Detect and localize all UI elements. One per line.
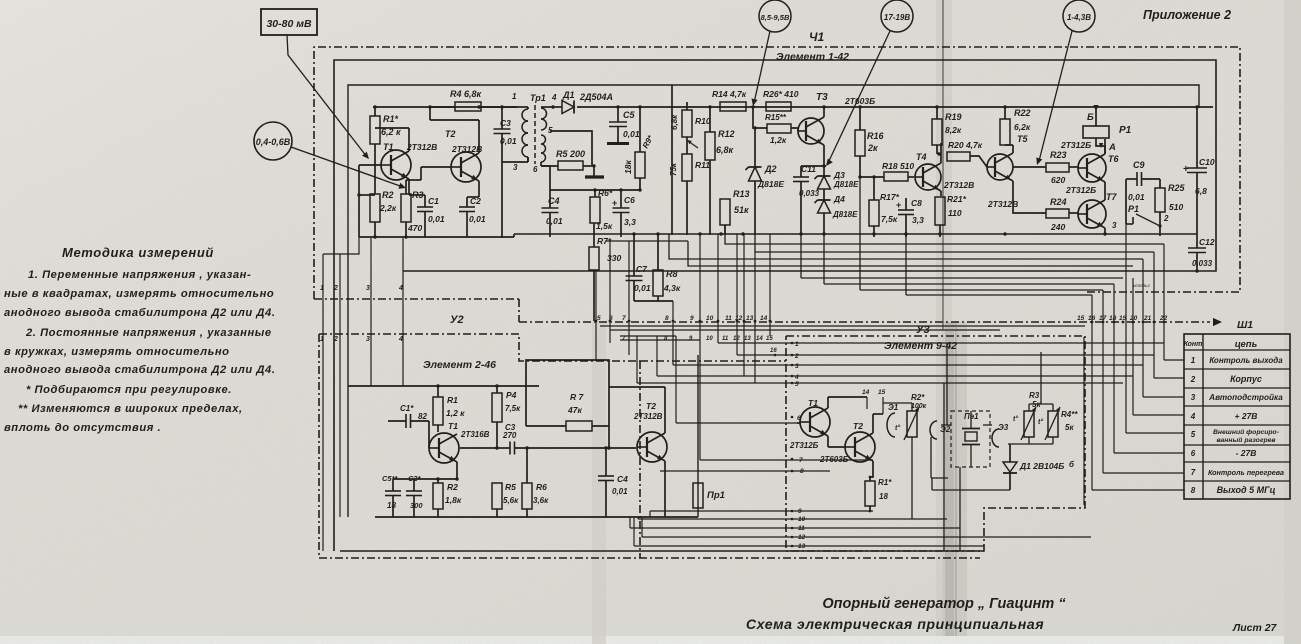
svg-text:2Т312В: 2Т312В: [451, 144, 482, 154]
svg-text:Т2: Т2: [445, 129, 456, 139]
svg-text:использ: использ: [1133, 283, 1150, 288]
У2 top rail: [348, 385, 539, 387]
transistor T1 У3: [789, 397, 830, 450]
svg-text:С12: С12: [1199, 237, 1215, 247]
svg-text:3,3: 3,3: [624, 217, 636, 227]
resistor R2 У2: [433, 479, 462, 517]
capacitor C7: [626, 234, 651, 301]
table rows text: [1190, 356, 1284, 495]
pin wire 4: [402, 238, 404, 386]
capacitor C1 У2: [388, 404, 429, 428]
resistor R1: [370, 105, 401, 152]
svg-text:14: 14: [760, 315, 768, 322]
bus y241 short: [606, 240, 688, 242]
resistor R16: [855, 105, 885, 177]
transistor T1: [375, 128, 437, 195]
wire pin6 down: [541, 166, 550, 208]
resistor R20: [947, 140, 987, 167]
callout circle 8,5-9,5В: [759, 0, 791, 32]
svg-text:300: 300: [410, 501, 423, 510]
svg-text:0,01: 0,01: [634, 283, 651, 293]
svg-text:Т6: Т6: [1108, 154, 1119, 164]
У3 pin 6-8 nets: [660, 422, 873, 471]
svg-text:R10: R10: [695, 116, 711, 126]
svg-text:Б: Б: [1087, 112, 1094, 123]
pin 8: [665, 301, 674, 365]
wire T1 out: [460, 447, 497, 449]
У3 pins 1-5: [770, 341, 799, 388]
label Ш1: [1237, 319, 1253, 331]
svg-text:0,4-0,6В: 0,4-0,6В: [256, 137, 291, 147]
wire У2 T2 base: [607, 426, 610, 450]
svg-text:9: 9: [690, 315, 694, 322]
thermistor R4 У3: [1038, 407, 1078, 440]
svg-text:R3: R3: [1029, 391, 1040, 400]
У2 bottom rail: [375, 516, 698, 518]
connector table Ш1 grid: [1184, 334, 1290, 499]
transformer Тр1: [512, 92, 557, 174]
callout leader to T1 emitter: [291, 147, 406, 189]
У3 internal wires: [931, 343, 948, 551]
svg-text:15: 15: [878, 389, 886, 396]
svg-text:Ч1: Ч1: [809, 30, 824, 44]
svg-text:Д818Е: Д818Е: [833, 180, 859, 189]
wire bottom rail y237: [359, 234, 514, 237]
capacitor C4: [542, 196, 563, 237]
svg-text:С1: С1: [428, 196, 439, 206]
svg-text:Э1: Э1: [888, 403, 899, 412]
svg-text:1,2к: 1,2к: [770, 135, 787, 145]
svg-text:1-4,3В: 1-4,3В: [1067, 13, 1091, 22]
У3 pins 9-13: [791, 508, 806, 550]
svg-text:0,01: 0,01: [428, 214, 445, 224]
svg-text:2Т312Б: 2Т312Б: [1065, 185, 1096, 195]
svg-text:5,6к: 5,6к: [503, 496, 519, 505]
svg-text:Т5: Т5: [1017, 134, 1028, 144]
resistor R6 У2: [522, 446, 549, 517]
resistor R5 У2: [492, 482, 519, 517]
svg-text:Контроль перегрева: Контроль перегрева: [1208, 468, 1284, 477]
resistor R1 У3: [865, 478, 892, 512]
svg-text:* Подбираются при регулиров: * Подбираются при регулировке.: [26, 384, 232, 396]
label А test point: [1099, 142, 1116, 153]
svg-text:2Т316В: 2Т316В: [460, 430, 490, 439]
svg-text:R2: R2: [447, 482, 458, 492]
resistor R4 У2: [492, 384, 521, 449]
svg-text:2,2к: 2,2к: [379, 203, 397, 213]
label Элемент 2-46: [423, 359, 496, 371]
wire Д2 top: [0, 0, 1, 1]
callout leader to R14/R26 node: [752, 31, 771, 106]
svg-text:2. Постоянные напряжения , ук: 2. Постоянные напряжения , указанные: [25, 327, 272, 339]
svg-text:7: 7: [622, 315, 626, 322]
svg-text:2Т312В: 2Т312В: [406, 142, 437, 152]
pin wire 2: [339, 254, 341, 517]
frame У1 outer dash-dot: [314, 47, 1240, 299]
svg-text:Т3: Т3: [816, 92, 828, 103]
svg-text:4: 4: [551, 93, 557, 102]
svg-text:100к: 100к: [911, 403, 927, 410]
svg-text:330: 330: [607, 253, 621, 263]
svg-text:2Т312Б: 2Т312Б: [789, 441, 819, 450]
svg-text:2: 2: [794, 353, 799, 360]
pin 11: [725, 234, 738, 355]
svg-text:С1*: С1*: [400, 404, 414, 413]
svg-text:4: 4: [398, 336, 403, 343]
svg-text:R24: R24: [1050, 197, 1067, 207]
svg-text:R2*: R2*: [911, 393, 925, 402]
svg-text:Д3: Д3: [833, 170, 845, 180]
resistor R23: [1013, 150, 1078, 185]
callout circle 0,4-0,6В: [254, 122, 292, 160]
wire C10 column: [1195, 105, 1198, 248]
table header: [1184, 339, 1258, 350]
svg-text:С6: С6: [624, 195, 635, 205]
wire T1 collector У2: [0, 0, 1, 1]
wire R20 left: [0, 0, 1, 1]
svg-text:R4**: R4**: [1061, 410, 1078, 419]
capacitor C5: [607, 105, 640, 143]
zener Д2: [746, 126, 785, 235]
wire mid column x672: [671, 85, 673, 235]
svg-text:R 7: R 7: [570, 392, 585, 402]
fuse Пр1: [693, 355, 725, 517]
bus y295: [906, 234, 1092, 295]
svg-text:2Т603Б: 2Т603Б: [844, 96, 875, 106]
bus y244: [725, 225, 1164, 244]
svg-text:13: 13: [746, 315, 754, 322]
svg-text:Элемент 9-42: Элемент 9-42: [884, 340, 957, 352]
svg-text:10: 10: [706, 336, 713, 342]
svg-text:R6: R6: [536, 482, 547, 492]
svg-text:+ 27В: + 27В: [1235, 411, 1258, 421]
resistor R4: [428, 89, 514, 120]
svg-text:15: 15: [766, 336, 773, 342]
note line 4: [25, 327, 272, 339]
svg-text:R22: R22: [1014, 108, 1031, 118]
bus y284: [824, 234, 1114, 284]
heater Э2: [930, 421, 937, 439]
У3 pins 6-8: [791, 415, 804, 475]
svg-text:Т4: Т4: [916, 152, 927, 162]
svg-text:С7: С7: [636, 264, 648, 274]
svg-text:R6*: R6*: [598, 188, 613, 198]
svg-text:Т7: Т7: [1106, 192, 1117, 202]
svg-text:Д2: Д2: [764, 164, 777, 174]
svg-text:7,5к: 7,5к: [505, 404, 521, 413]
svg-text:R20 4,7к: R20 4,7к: [948, 140, 983, 150]
svg-text:4,3к: 4,3к: [663, 283, 681, 293]
resistor R10: [670, 102, 711, 137]
svg-text:Т1: Т1: [448, 421, 458, 431]
svg-text:Конт: Конт: [1184, 341, 1203, 348]
svg-text:30-80 мВ: 30-80 мВ: [266, 18, 312, 30]
resistor R7: [589, 223, 621, 321]
capacitor C8: [896, 198, 924, 237]
capacitor C1: [409, 195, 445, 237]
transistor T2 У3: [819, 414, 875, 481]
svg-text:1,2 к: 1,2 к: [446, 408, 465, 418]
svg-text:Д1: Д1: [562, 90, 575, 100]
wire T4 emitter: [0, 0, 1, 1]
resistor R12: [705, 105, 735, 235]
pin 6: [609, 241, 613, 343]
pins 7-15 row2 labels: [622, 336, 773, 342]
zener Д3: [815, 166, 860, 200]
svg-text:Ш1: Ш1: [1237, 319, 1253, 331]
capacitor C2 У2: [406, 474, 423, 517]
transistor T3: [791, 92, 875, 166]
crystal Пэ1 element: [962, 411, 980, 467]
harness wires to connector Ш1: [1092, 224, 1184, 490]
wire R6C6 rail: [550, 189, 640, 191]
svg-text:2: 2: [1163, 214, 1169, 223]
svg-text:620: 620: [1051, 175, 1065, 185]
svg-text:0,01: 0,01: [546, 216, 563, 226]
wire У2 verticals: [0, 0, 1, 1]
wire T4 collector node: [937, 152, 940, 155]
svg-text:** Изменяются в широких пре: ** Изменяются в широких пределах,: [18, 403, 243, 415]
resistor R17: [869, 175, 900, 237]
caption Приложение 2: [1143, 8, 1231, 22]
wire T5 base: [0, 0, 1, 1]
wire 15 rail: [873, 413, 883, 415]
svg-text:8,5-9,5В: 8,5-9,5В: [761, 13, 790, 22]
resistor R2: [370, 152, 397, 239]
resistor R3: [401, 180, 424, 239]
svg-text:2Т312Б: 2Т312Б: [1060, 140, 1091, 150]
svg-text:3: 3: [1112, 221, 1117, 230]
wire top rail y107: [373, 106, 1213, 108]
svg-text:240: 240: [1050, 222, 1065, 232]
svg-text:Э3: Э3: [998, 423, 1009, 432]
diode Д1: [551, 90, 613, 114]
wire T3 base loop: [0, 0, 1, 1]
svg-text:R15**: R15**: [765, 113, 787, 122]
svg-text:С9: С9: [1133, 160, 1145, 170]
svg-text:2к: 2к: [867, 143, 878, 153]
svg-text:82: 82: [418, 412, 427, 421]
transistor T5: [987, 134, 1028, 212]
svg-text:+: +: [1183, 164, 1189, 175]
wire T1-T2 У3: [828, 446, 845, 448]
capacitor C10: [1183, 157, 1215, 196]
svg-text:18: 18: [387, 501, 396, 510]
callout circle 17-19В: [881, 0, 913, 32]
capacitor C4 У2: [598, 446, 628, 517]
svg-text:Э2: Э2: [940, 425, 951, 434]
svg-text:Д1 2В104Б: Д1 2В104Б: [1019, 461, 1064, 471]
svg-text:11: 11: [725, 315, 732, 322]
svg-text:2: 2: [333, 285, 338, 292]
svg-text:4: 4: [1190, 412, 1196, 421]
svg-text:8: 8: [665, 315, 669, 322]
svg-text:6: 6: [533, 165, 538, 174]
svg-text:+: +: [896, 200, 901, 210]
resistor R15: [753, 107, 791, 145]
svg-text:R13: R13: [733, 189, 750, 199]
svg-text:18: 18: [879, 492, 888, 501]
svg-text:Д818Е: Д818Е: [832, 210, 858, 219]
svg-text:5: 5: [597, 315, 601, 322]
svg-text:R4 6,8к: R4 6,8к: [450, 89, 482, 99]
svg-text:Т2: Т2: [853, 421, 863, 431]
note line 7: [26, 384, 232, 396]
label Б test point: [1087, 105, 1099, 123]
svg-text:Тр1: Тр1: [530, 93, 546, 103]
resistor R8: [634, 232, 681, 301]
svg-text:0,01: 0,01: [612, 487, 628, 496]
svg-text:510: 510: [1169, 202, 1183, 212]
svg-text:8: 8: [1191, 486, 1196, 495]
bus y290: [860, 177, 1103, 290]
У3 pin9-13 nets: [630, 511, 1091, 546]
svg-text:51к: 51к: [734, 205, 749, 215]
note line 9: [4, 422, 161, 434]
label Элемент 9-42: [884, 340, 957, 352]
transistor T2 У2: [633, 401, 667, 517]
wire R10 top: [0, 0, 1, 1]
wire R10-R11 junction: [686, 137, 688, 154]
svg-text:Приложение 2: Приложение 2: [1143, 8, 1231, 22]
svg-text:18к: 18к: [623, 160, 633, 174]
svg-text:2: 2: [333, 336, 338, 343]
svg-text:R21*: R21*: [947, 194, 967, 204]
capacitor C11: [793, 164, 820, 235]
svg-text:0,01: 0,01: [623, 129, 640, 139]
svg-text:У3: У3: [916, 324, 930, 336]
svg-text:R5: R5: [505, 482, 516, 492]
svg-text:Р1: Р1: [1119, 125, 1132, 136]
capacitor C6: [612, 188, 636, 237]
svg-text:R23: R23: [1050, 150, 1067, 160]
pin 13: [746, 252, 756, 383]
bus y266: [688, 241, 1133, 266]
svg-text:анодного вывода стабилитрона: анодного вывода стабилитрона Д2 или Д4.: [4, 364, 275, 376]
svg-text:Схема электрическая принц: Схема электрическая принципиальная: [746, 617, 1044, 633]
transistor T1 У2: [429, 421, 490, 479]
resistor R14: [712, 89, 755, 111]
svg-text:18: 18: [1109, 315, 1117, 322]
svg-text:Т2: Т2: [646, 401, 656, 411]
wire R13 top: [0, 0, 1, 1]
title line 1: [822, 596, 1066, 612]
svg-text:ванный разогрев: ванный разогрев: [1217, 436, 1276, 444]
svg-text:t°: t°: [895, 424, 900, 432]
wire T1 emitter rail: [393, 477, 459, 480]
svg-text:R26* 410: R26* 410: [763, 89, 799, 99]
pin wire 3: [370, 238, 372, 386]
bus y278: [801, 234, 1123, 278]
crystal Пэ1 dashed box: [951, 411, 990, 467]
svg-text:2: 2: [1190, 375, 1196, 384]
wire C8 top: [0, 0, 1, 1]
callout leader to T1 base: [287, 35, 369, 159]
wire osc bottom to frame: [0, 0, 1, 1]
svg-text:Выход 5 МГц: Выход 5 МГц: [1217, 485, 1276, 495]
svg-text:С4: С4: [548, 196, 560, 206]
svg-text:С4: С4: [617, 474, 628, 484]
thermistor R3 У3: [1013, 391, 1041, 440]
pin wire 1: [323, 237, 359, 551]
svg-text:Опорный генератор „ Гиацин: Опорный генератор „ Гиацинт “: [822, 596, 1066, 612]
frame У2 right edge: [639, 361, 641, 558]
svg-text:4: 4: [398, 285, 403, 292]
svg-text:Контроль выхода: Контроль выхода: [1209, 356, 1283, 365]
svg-text:1,8к: 1,8к: [445, 495, 462, 505]
pin 5: [595, 270, 601, 361]
capacitor C5 У2: [382, 474, 401, 517]
wire x1084 net: [1069, 337, 1084, 505]
note line 2: [4, 288, 274, 300]
svg-text:R25: R25: [1168, 183, 1186, 193]
resistor R6: [590, 188, 613, 231]
resistor R1 У2: [433, 384, 465, 432]
svg-text:С8: С8: [911, 198, 922, 208]
heater Э1: [887, 403, 900, 437]
У3 mid rails: [0, 0, 1, 1]
resistor R13: [720, 189, 750, 235]
svg-text:6: 6: [1191, 449, 1196, 458]
svg-text:1,5к: 1,5к: [596, 221, 613, 231]
svg-text:R11: R11: [695, 160, 710, 170]
label Ч1: [809, 30, 824, 44]
resistor R25: [1155, 179, 1186, 226]
svg-text:3: 3: [366, 285, 370, 292]
svg-text:0,01: 0,01: [1128, 192, 1145, 202]
svg-text:0,033: 0,033: [799, 189, 820, 198]
callout box 30-80 мВ: [261, 9, 317, 35]
svg-text:8,2к: 8,2к: [945, 125, 962, 135]
svg-text:R1: R1: [447, 395, 458, 405]
callout leader to T5 node: [1036, 31, 1072, 165]
pins 1-4 row2 labels: [320, 336, 403, 343]
wire 14 rail: [828, 396, 867, 398]
svg-text:2Т603Б: 2Т603Б: [819, 455, 849, 464]
zener Д4: [815, 194, 859, 235]
svg-text:1: 1: [512, 92, 517, 101]
bottom rail y551: [340, 550, 984, 552]
svg-text:Элемент 1-42: Элемент 1-42: [776, 51, 849, 63]
svg-text:11: 11: [722, 336, 729, 342]
svg-text:6,2к: 6,2к: [1014, 122, 1031, 132]
svg-text:С10: С10: [1199, 157, 1215, 167]
svg-text:Р1: Р1: [1128, 204, 1139, 214]
svg-text:270: 270: [502, 431, 517, 440]
row2 bus pair: [620, 336, 700, 340]
bus y259: [669, 234, 1143, 259]
svg-text:А: А: [1108, 142, 1116, 153]
svg-text:Автоподстройка: Автоподстройка: [1208, 393, 1283, 402]
svg-text:У2: У2: [450, 314, 464, 326]
svg-text:R2: R2: [382, 190, 394, 200]
wire T2 collector У2: [609, 387, 665, 433]
svg-text:3: 3: [1191, 393, 1196, 402]
svg-text:Корпус: Корпус: [1230, 374, 1262, 384]
resistor R5: [541, 149, 596, 170]
svg-text:Д4: Д4: [833, 194, 845, 204]
svg-text:2Т312В: 2Т312В: [633, 412, 663, 421]
pin 10: [706, 234, 719, 343]
capacitor C3 У2: [497, 423, 636, 455]
label У3: [916, 324, 930, 336]
У3 pin1-5 nets: [637, 336, 1164, 423]
heater Э3: [992, 423, 1009, 447]
capacitor C9: [1126, 160, 1160, 224]
svg-text:110: 110: [948, 208, 962, 218]
thermistor R2* У3: [883, 393, 927, 519]
transistor T4: [915, 143, 974, 196]
